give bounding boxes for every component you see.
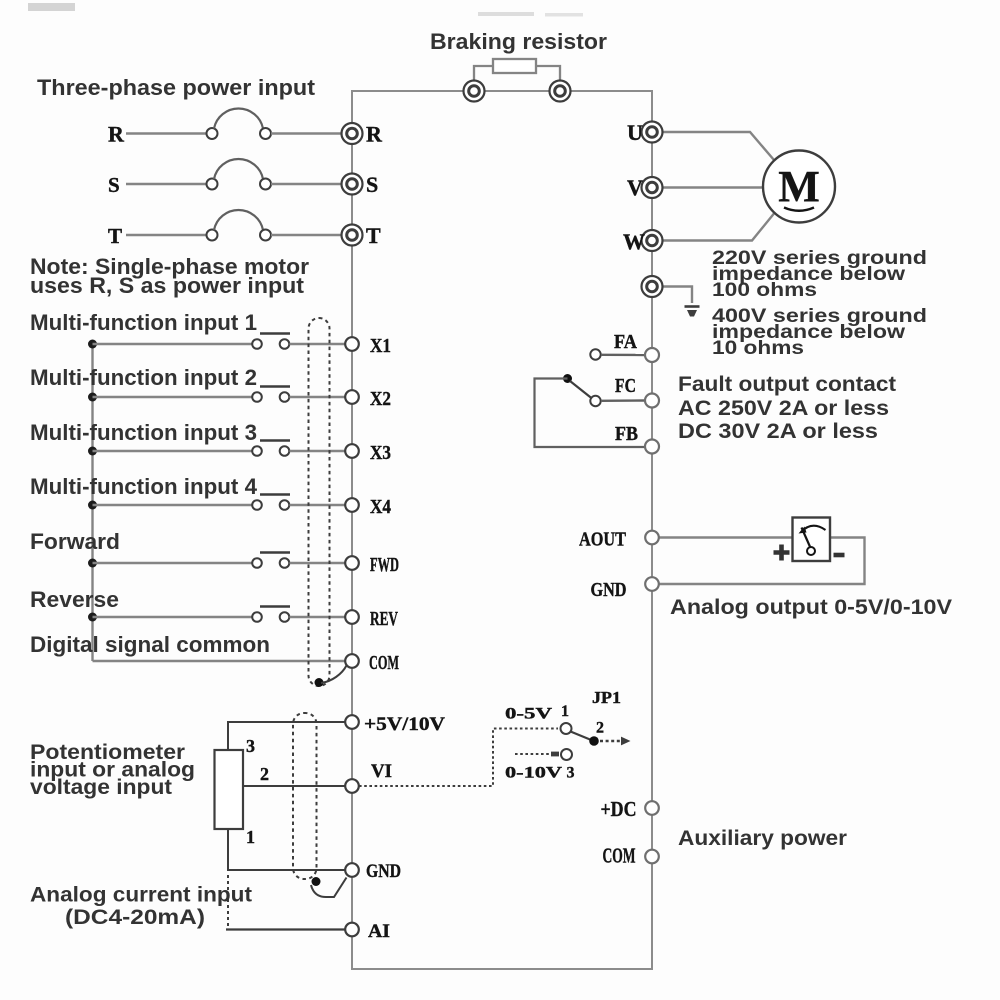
label terminal X2 bbox=[370, 388, 391, 410]
label 400V series ground bbox=[712, 305, 927, 327]
wire T phase lead bbox=[126, 234, 207, 236]
breaker contact R right bbox=[260, 128, 271, 139]
wire X3 switch to terminal bbox=[290, 450, 346, 452]
svg-text:S: S bbox=[108, 173, 120, 197]
node T phase label bbox=[108, 224, 122, 248]
terminal FC bbox=[645, 394, 659, 408]
relay common dot bbox=[563, 374, 572, 383]
svg-text:Braking resistor: Braking resistor bbox=[430, 29, 607, 54]
label Auxiliary power bbox=[678, 827, 847, 850]
label meter plus bbox=[774, 545, 790, 561]
svg-text:1: 1 bbox=[246, 827, 255, 847]
switch X3 actuator bar bbox=[260, 439, 290, 442]
inverter main box outline bbox=[352, 91, 652, 969]
wire R to terminal bbox=[271, 132, 342, 134]
svg-text:Multi-function input 2: Multi-function input 2 bbox=[30, 365, 257, 390]
svg-text:Digital signal common: Digital signal common bbox=[30, 632, 270, 657]
label terminal AI bbox=[368, 921, 390, 942]
label terminal V bbox=[627, 175, 643, 200]
terminal R (double-ring) bbox=[342, 123, 363, 144]
wire pot bottom to GND bbox=[228, 829, 345, 870]
svg-text:X3: X3 bbox=[370, 442, 391, 464]
label terminal R bbox=[366, 122, 383, 147]
label pot pin 1 bbox=[246, 827, 255, 847]
svg-text:3: 3 bbox=[567, 765, 575, 782]
label terminal FB bbox=[615, 423, 638, 445]
label DC 30V 2A or less bbox=[678, 420, 878, 443]
terminal VI bbox=[345, 779, 359, 793]
svg-text:T: T bbox=[366, 223, 381, 248]
breaker contact S right bbox=[260, 179, 271, 190]
motor M circle bbox=[763, 151, 835, 223]
terminal S (double-ring) bbox=[342, 174, 363, 195]
note single-phase line2 bbox=[30, 273, 305, 298]
label Multi-function input 4 bbox=[30, 474, 258, 499]
wire bus to X4 switch bbox=[93, 504, 253, 506]
label (DC4-20mA) bbox=[65, 905, 205, 929]
relay contact FC circle bbox=[590, 396, 600, 406]
wire X1 switch to terminal bbox=[290, 343, 346, 345]
label impedance below (220V) bbox=[712, 263, 906, 285]
wire T to terminal bbox=[271, 234, 342, 236]
label 0-5V bbox=[505, 706, 553, 723]
svg-text:S: S bbox=[366, 172, 378, 197]
svg-text:+DC: +DC bbox=[601, 797, 637, 821]
label JP1 pin 2 bbox=[596, 720, 604, 737]
svg-text:Analog output 0-5V/0-10V: Analog output 0-5V/0-10V bbox=[670, 596, 952, 619]
wire FWD switch to terminal bbox=[290, 562, 346, 564]
label terminal U bbox=[627, 120, 643, 145]
switch REV contact right bbox=[280, 612, 290, 622]
wire relay common to FB bbox=[535, 379, 645, 448]
terminal REV bbox=[345, 610, 359, 624]
label Multi-function input 3 bbox=[30, 420, 257, 445]
switch X3 contact right bbox=[280, 446, 290, 456]
wire S phase lead bbox=[126, 183, 207, 185]
svg-text:Three-phase power input: Three-phase power input bbox=[37, 75, 316, 100]
terminal U (double-ring) bbox=[642, 122, 663, 143]
switch REV actuator bar bbox=[260, 605, 290, 608]
label terminal +DC bbox=[601, 797, 637, 821]
label Multi-function input 2 bbox=[30, 365, 257, 390]
breaker contact R left bbox=[207, 128, 218, 139]
svg-text:W: W bbox=[623, 229, 645, 254]
label terminal +5V/10V bbox=[364, 714, 445, 735]
svg-text:+5V/10V: +5V/10V bbox=[364, 714, 445, 735]
jumper JP1 pin 2 dot bbox=[589, 736, 599, 746]
resistor Braking resistor bbox=[493, 59, 536, 73]
label pot pin 3 bbox=[246, 736, 255, 756]
terminal PE (earth) (double-ring) bbox=[642, 276, 663, 297]
svg-text:Auxiliary power: Auxiliary power bbox=[678, 827, 847, 850]
label Digital signal common bbox=[30, 632, 270, 657]
label terminal T bbox=[366, 223, 381, 248]
terminal P+ (brake) (double-ring) bbox=[464, 81, 485, 102]
breaker arc T bbox=[214, 210, 263, 230]
potentiometer body bbox=[215, 750, 244, 829]
jumper JP1 pin 3 bbox=[561, 749, 572, 760]
meter M1 body bbox=[793, 518, 831, 562]
svg-text:Multi-function input 1: Multi-function input 1 bbox=[30, 310, 257, 335]
label terminal FWD bbox=[370, 554, 399, 576]
svg-text:GND: GND bbox=[591, 579, 627, 601]
svg-text:GND: GND bbox=[366, 861, 401, 882]
label JP1 pin 1 bbox=[561, 703, 569, 720]
label Braking resistor bbox=[430, 29, 607, 54]
wire R phase lead bbox=[126, 132, 207, 134]
svg-text:uses R, S as power input: uses R, S as power input bbox=[30, 273, 305, 298]
svg-text:0-10V: 0-10V bbox=[505, 765, 563, 782]
label JP1 bbox=[592, 688, 621, 707]
junction dot bus/X2 bbox=[88, 393, 97, 402]
svg-text:FB: FB bbox=[615, 423, 638, 445]
svg-text:X4: X4 bbox=[370, 496, 391, 518]
svg-text:JP1: JP1 bbox=[592, 688, 621, 707]
svg-text:2: 2 bbox=[260, 764, 269, 784]
wire bus to X3 switch bbox=[93, 450, 253, 452]
terminal GND (aout) bbox=[645, 577, 659, 591]
node R phase label bbox=[108, 122, 125, 147]
terminal COM (power) bbox=[645, 850, 659, 864]
terminal +5V/10V bbox=[345, 715, 359, 729]
wire S to terminal bbox=[271, 183, 342, 185]
junction dot bus/X1 bbox=[88, 340, 97, 349]
switch X1 contact left bbox=[252, 339, 262, 349]
meter M1 needle bbox=[802, 528, 812, 550]
note single-phase line1 bbox=[30, 254, 309, 279]
svg-text:3: 3 bbox=[246, 736, 255, 756]
label Fault output contact bbox=[678, 373, 896, 396]
terminal GND (analog) bbox=[345, 863, 359, 877]
wire X4 switch to terminal bbox=[290, 504, 346, 506]
label Multi-function input 1 bbox=[30, 310, 257, 335]
svg-text:AOUT: AOUT bbox=[579, 529, 627, 551]
junction dot bus/REV bbox=[88, 613, 97, 622]
label terminal COM (power) bbox=[603, 844, 636, 868]
switch X4 contact right bbox=[280, 500, 290, 510]
svg-text:(DC4-20mA): (DC4-20mA) bbox=[65, 905, 205, 929]
wire V to motor bbox=[663, 186, 763, 188]
svg-text:Analog current input: Analog current input bbox=[30, 883, 252, 907]
wire analog shield to GND terminal bbox=[311, 878, 347, 898]
label terminal REV bbox=[370, 608, 398, 630]
label 0-10V bbox=[505, 765, 563, 782]
label terminal GND bbox=[366, 861, 401, 882]
switch REV contact left bbox=[252, 612, 262, 622]
wire meter to GND bbox=[659, 538, 865, 585]
wire ground terminal to earth bbox=[662, 287, 692, 304]
terminal AI bbox=[345, 923, 359, 937]
wire pot wiper to VI bbox=[243, 785, 345, 787]
wire bus to X2 switch bbox=[93, 396, 253, 398]
wire dashed stub to JP1 pin 3 bbox=[515, 752, 559, 757]
label meter minus bbox=[834, 553, 845, 558]
switch X2 contact left bbox=[252, 392, 262, 402]
label terminal FC bbox=[615, 375, 636, 397]
relay lever FC bbox=[570, 381, 592, 399]
svg-text:FC: FC bbox=[615, 375, 636, 397]
breaker arc R bbox=[214, 108, 263, 128]
switch FWD contact right bbox=[280, 558, 290, 568]
meter M1 scale arc bbox=[799, 526, 826, 534]
svg-text:100 ohms: 100 ohms bbox=[712, 279, 817, 301]
svg-text:FWD: FWD bbox=[370, 554, 399, 576]
label terminal COM bbox=[369, 652, 399, 674]
breaker contact T left bbox=[207, 230, 218, 241]
svg-text:M: M bbox=[778, 162, 820, 211]
svg-text:VI: VI bbox=[371, 761, 392, 782]
switch X4 actuator bar bbox=[260, 493, 290, 496]
terminal W (double-ring) bbox=[642, 230, 663, 251]
junction dot bus/X3 bbox=[88, 447, 97, 456]
label JP1 pin 3 bbox=[567, 765, 575, 782]
terminal X1 bbox=[345, 337, 359, 351]
terminal X2 bbox=[345, 390, 359, 404]
svg-text:COM: COM bbox=[603, 844, 636, 868]
terminal T (double-ring) bbox=[342, 225, 363, 246]
breaker contact T right bbox=[260, 230, 271, 241]
svg-text:V: V bbox=[627, 175, 643, 200]
node S phase label bbox=[108, 173, 120, 197]
junction dot bus/X4 bbox=[88, 501, 97, 510]
svg-text:Reverse: Reverse bbox=[30, 587, 119, 612]
label terminal GND (aout) bbox=[591, 579, 627, 601]
wire U to motor bbox=[663, 132, 774, 160]
svg-text:U: U bbox=[627, 120, 643, 145]
label terminal S bbox=[366, 172, 378, 197]
terminal AOUT bbox=[645, 531, 659, 545]
switch X3 contact left bbox=[252, 446, 262, 456]
terminal FWD bbox=[345, 556, 359, 570]
terminal X4 bbox=[345, 498, 359, 512]
wire bus to FWD switch bbox=[93, 562, 253, 564]
wire X2 switch to terminal bbox=[290, 396, 346, 398]
terminal +DC bbox=[645, 801, 659, 815]
wire AI lead bbox=[226, 928, 345, 930]
wire bus to REV switch bbox=[93, 616, 253, 618]
terminal X3 bbox=[345, 444, 359, 458]
label terminal VI bbox=[371, 761, 392, 782]
wire common to COM terminal bbox=[93, 660, 346, 662]
terminal PB (brake) (double-ring) bbox=[550, 81, 571, 102]
label AC 250V 2A or less bbox=[678, 397, 889, 420]
wire braking resistor left leg bbox=[474, 66, 493, 91]
junction dot analog shield bbox=[312, 877, 321, 886]
switch X1 contact right bbox=[280, 339, 290, 349]
wire braking resistor right leg bbox=[536, 66, 560, 91]
scan artifact above braking resistor bbox=[478, 12, 583, 17]
wire digital common bus bbox=[91, 344, 93, 661]
terminal V (double-ring) bbox=[642, 177, 663, 198]
terminal COM bbox=[345, 654, 359, 668]
label pot pin 2 bbox=[260, 764, 269, 784]
shield capsule (digital inputs cable screen) bbox=[309, 318, 330, 686]
label Reverse bbox=[30, 587, 119, 612]
label 220V series ground bbox=[712, 247, 927, 269]
svg-text:Multi-function input 4: Multi-function input 4 bbox=[30, 474, 258, 499]
switch FWD contact left bbox=[252, 558, 262, 568]
svg-text:AI: AI bbox=[368, 921, 390, 942]
label terminal X4 bbox=[370, 496, 391, 518]
relay contact FA lead circle bbox=[590, 349, 600, 359]
ground symbol bbox=[685, 307, 700, 317]
svg-text:COM: COM bbox=[369, 652, 399, 674]
svg-text:Forward: Forward bbox=[30, 529, 120, 554]
wire VI dashed to JP1 pin1 bbox=[359, 729, 558, 787]
motor M letter bbox=[778, 162, 820, 211]
label impedance below (400V) bbox=[712, 321, 906, 343]
label Potentiometer bbox=[30, 740, 186, 764]
svg-text:DC 30V 2A or less: DC 30V 2A or less bbox=[678, 420, 878, 443]
label 100 ohms bbox=[712, 279, 817, 301]
wire bus to X1 switch bbox=[93, 343, 253, 345]
wire shield to COM terminal bbox=[321, 666, 347, 684]
wire W to motor bbox=[663, 214, 774, 241]
shield capsule (analog cable screen) bbox=[293, 713, 317, 879]
label 10 ohms bbox=[712, 337, 804, 359]
switch X2 contact right bbox=[280, 392, 290, 402]
svg-text:X2: X2 bbox=[370, 388, 391, 410]
svg-text:voltage input: voltage input bbox=[30, 775, 172, 799]
svg-text:REV: REV bbox=[370, 608, 398, 630]
svg-text:X1: X1 bbox=[370, 335, 391, 357]
svg-text:0-5V: 0-5V bbox=[505, 706, 553, 723]
label Analog current input bbox=[30, 883, 252, 907]
switch X2 actuator bar bbox=[260, 385, 290, 388]
svg-text:Multi-function input 3: Multi-function input 3 bbox=[30, 420, 257, 445]
svg-text:Fault output contact: Fault output contact bbox=[678, 373, 896, 396]
label Three-phase power input bbox=[37, 75, 316, 100]
terminal FB bbox=[645, 440, 659, 454]
meter M1 hub bbox=[807, 547, 815, 555]
svg-text:AC 250V 2A or less: AC 250V 2A or less bbox=[678, 397, 889, 420]
svg-text:R: R bbox=[366, 122, 383, 147]
svg-text:1: 1 bbox=[561, 703, 569, 720]
switch X4 contact left bbox=[252, 500, 262, 510]
scan artifact top-left bbox=[28, 3, 75, 11]
svg-text:10 ohms: 10 ohms bbox=[712, 337, 804, 359]
wire FA lead bbox=[601, 354, 645, 357]
label terminal W bbox=[623, 229, 645, 254]
wire +5V/10V to potentiometer top bbox=[228, 722, 345, 749]
junction dot shield to COM bbox=[315, 678, 324, 687]
label terminal FA bbox=[614, 331, 637, 353]
jumper JP1 pin 1 bbox=[561, 723, 572, 734]
svg-text:FA: FA bbox=[614, 331, 637, 353]
label Analog output 0-5V/0-10V bbox=[670, 596, 952, 619]
wire FC lead bbox=[601, 399, 645, 402]
label Forward bbox=[30, 529, 120, 554]
label input or analog bbox=[30, 758, 195, 782]
terminal FA bbox=[645, 348, 659, 362]
wire REV switch to terminal bbox=[290, 616, 346, 618]
breaker contact S left bbox=[207, 179, 218, 190]
label terminal X1 bbox=[370, 335, 391, 357]
switch X1 actuator bar bbox=[260, 332, 290, 335]
switch FWD actuator bar bbox=[260, 551, 290, 554]
junction dot bus/FWD bbox=[88, 559, 97, 568]
wire AOUT to meter bbox=[659, 536, 793, 538]
label terminal X3 bbox=[370, 442, 391, 464]
breaker arc S bbox=[214, 159, 263, 179]
svg-text:2: 2 bbox=[596, 720, 604, 737]
svg-text:R: R bbox=[108, 122, 125, 147]
svg-text:T: T bbox=[108, 224, 122, 248]
label voltage input bbox=[30, 775, 172, 799]
wire shield drain dashed to AI lead bbox=[227, 875, 229, 927]
label terminal AOUT bbox=[579, 529, 627, 551]
jumper JP1 lever bbox=[571, 732, 591, 740]
jumper JP1 arrow bbox=[600, 737, 631, 746]
